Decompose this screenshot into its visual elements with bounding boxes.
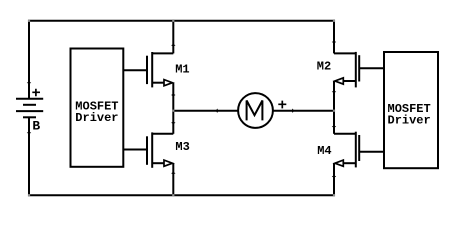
wire: M1 drain riser to top rail xyxy=(172,20,174,54)
junction: grey dot M3 source / bottom rail xyxy=(172,194,174,196)
wire: M1 source drop to motor node xyxy=(172,83,174,111)
label B (battery) xyxy=(32,119,40,134)
junction: grey dot M1 drain / top rail xyxy=(172,20,174,22)
label M1 xyxy=(175,63,189,77)
wire: motor node right (motor to M2/M4 junction) xyxy=(273,110,334,112)
MOSFET Driver block (left) xyxy=(71,49,124,167)
svg-text:M4: M4 xyxy=(317,144,331,158)
junction: tick on M2 source drop xyxy=(332,91,336,93)
wire: motor node left (M1/M3 junction to motor) xyxy=(173,110,238,112)
junction: grey corner dot top-left xyxy=(28,20,30,22)
wire: left rail from battery - terminal down to bottom-left corner xyxy=(28,117,30,195)
label M3 xyxy=(175,140,189,154)
svg-text:M3: M3 xyxy=(175,140,189,154)
label + (battery positive) xyxy=(32,89,40,97)
label + (motor positive terminal) xyxy=(278,101,286,109)
wire: left rail from battery + terminal up to top-left corner xyxy=(28,21,30,99)
junction: grey corner dot bottom-right xyxy=(333,194,335,196)
wire: M3 source drop to bottom rail xyxy=(172,163,174,195)
svg-text:M2: M2 xyxy=(317,59,331,73)
junction: tick on M2 drain riser xyxy=(332,41,336,43)
wire: M4 source drop to bottom rail xyxy=(333,163,335,195)
junction: tick on M1 source drop xyxy=(171,94,175,96)
label MOSFET Driver (right) xyxy=(388,102,431,128)
wire: top rail xyxy=(28,20,335,22)
junction: grey dot motor node left xyxy=(172,110,174,112)
junction: tick on battery top lead xyxy=(27,82,31,84)
junction: grey corner dot bottom-left xyxy=(28,194,30,196)
transistor M1 (N-MOSFET, top-left) xyxy=(123,52,173,87)
transistor M3 (N-MOSFET, bottom-left) xyxy=(123,132,173,167)
wire: M2 source drop to motor node xyxy=(333,81,335,111)
transistor M4 (N-MOSFET, bottom-right, mirrored) xyxy=(334,132,384,168)
svg-text:Driver: Driver xyxy=(75,111,118,125)
motor M xyxy=(238,93,273,128)
junction: grey corner dot top-right xyxy=(333,20,335,22)
junction: tick on M4 source drop xyxy=(332,175,336,177)
wire: M3 drain riser to motor node xyxy=(172,111,174,134)
junction: tick on M1 drain riser xyxy=(171,44,175,46)
wire: M4 drain riser to motor node xyxy=(333,111,335,134)
junction: grey dot motor node right xyxy=(333,110,335,112)
label M4 xyxy=(317,144,331,158)
junction: tick on motor wire right xyxy=(292,109,294,113)
MOSFET Driver block (right) xyxy=(384,52,438,168)
wire: M2 drain riser to top rail xyxy=(333,20,335,54)
svg-text:Driver: Driver xyxy=(388,114,431,128)
junction: tick on M3 drain riser xyxy=(171,122,175,124)
junction: tick on M3 source drop xyxy=(171,172,175,174)
wire: bottom rail xyxy=(28,194,335,196)
junction: tick on motor wire left xyxy=(216,109,218,113)
junction: tick on battery bottom lead xyxy=(27,132,31,134)
label M2 xyxy=(317,59,331,73)
junction: tick on M4 drain riser xyxy=(332,125,336,127)
label MOSFET Driver (left) xyxy=(75,99,118,125)
svg-text:M1: M1 xyxy=(175,63,189,77)
svg-text:B: B xyxy=(32,119,40,134)
battery B xyxy=(16,99,43,118)
transistor M2 (N-MOSFET, top-right, mirrored) xyxy=(334,52,384,88)
